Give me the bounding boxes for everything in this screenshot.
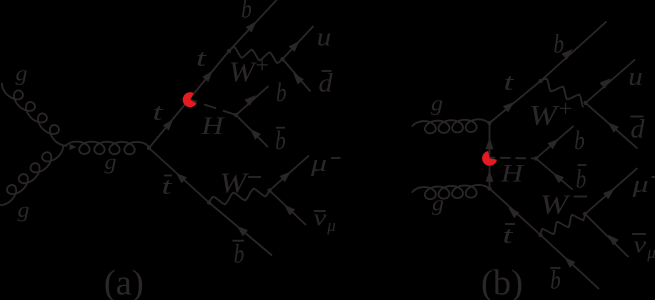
muon line mu- (a) (270, 156, 310, 191)
vertex H-b-bbar (b) (534, 156, 538, 160)
top quark line t (b) (490, 81, 541, 123)
incoming gluon g bottom (b) (412, 185, 490, 199)
svg-text:b: b (574, 126, 585, 155)
svg-text:H: H (500, 160, 526, 187)
vertex tbar-bbar-W- (a) (207, 200, 211, 204)
svg-text:μ: μ (631, 172, 648, 198)
svg-text:(a): (a) (104, 263, 144, 300)
bbar quark line from H (b) (536, 159, 573, 190)
svg-text:b: b (234, 240, 245, 269)
arrow b from H (b) (548, 139, 559, 150)
u quark line (a) (283, 26, 314, 59)
arrow b (b) (562, 49, 573, 60)
arrow b from H (a) (245, 95, 256, 106)
svg-text:+: + (255, 53, 269, 79)
vertex g-t (b) (487, 121, 491, 125)
vertex t-b-W+ (b) (538, 79, 542, 83)
arrow bbar from tbar (a) (237, 226, 248, 237)
svg-text:ν: ν (633, 233, 646, 259)
svg-text:ν: ν (313, 206, 326, 232)
antitop quark line tbar (a) (149, 148, 209, 203)
top quark line t (a) (149, 51, 229, 148)
svg-text:g: g (16, 61, 28, 86)
svg-text:b: b (276, 78, 287, 107)
svg-text:W: W (220, 169, 250, 200)
arrow mu- (a) (280, 172, 291, 183)
vertex tbar-bbar-W- (b) (538, 233, 542, 237)
W+ boson wavy line (a) (229, 47, 283, 63)
svg-text:b: b (554, 30, 565, 59)
W+ boson wavy line (b) (541, 79, 584, 108)
W- boson wavy line (b) (541, 214, 586, 235)
effective vertex blob (b) (482, 151, 497, 166)
svg-text:u: u (628, 62, 643, 91)
vertex H-b-bbar (a) (234, 113, 238, 117)
svg-text:μ: μ (310, 151, 327, 177)
b quark line from H (a) (236, 86, 269, 115)
arrow dbar (a) (293, 73, 304, 84)
arrow t vertical upper (b) (486, 138, 494, 149)
incoming gluon g lower-left (a) (0, 145, 63, 205)
arrow t vertical lower (b) (486, 170, 494, 182)
svg-text:b: b (241, 0, 252, 24)
arrow t upper segment (a) (202, 71, 212, 82)
arrow tbar (b) (508, 208, 519, 219)
arrow t (b) (503, 102, 514, 112)
arrow nubar (b) (608, 235, 619, 246)
svg-text:g: g (431, 91, 443, 116)
arrow b (a) (246, 21, 257, 32)
vertex W+-u-dbar (a) (280, 57, 284, 61)
antineutrino line nubar (b) (585, 214, 629, 257)
arrow u (b) (600, 78, 611, 89)
vertex W--mu-nubar (a) (267, 188, 271, 192)
svg-text:(b): (b) (481, 263, 523, 300)
arrow bbar from H (b) (553, 173, 564, 184)
svg-text:μ: μ (646, 243, 655, 262)
bbar quark line from tbar (a) (209, 203, 272, 256)
svg-text:W: W (529, 101, 560, 132)
arrow dbar (b) (608, 122, 619, 133)
vertex W--mu-nubar (b) (583, 212, 587, 216)
vertex W+-u-dbar (b) (583, 101, 587, 105)
b quark line from t (a) (229, 0, 278, 51)
svg-text:μ: μ (326, 216, 336, 235)
svg-text:b: b (550, 266, 561, 295)
H dashed propagator (b) (489, 158, 537, 159)
u quark line (b) (586, 60, 636, 104)
b quark line from H (b) (536, 126, 574, 159)
gluon propagator g (a) (65, 142, 149, 155)
incoming gluon g top (b) (412, 119, 490, 133)
antitop quark line tbar (b) (490, 189, 541, 236)
svg-text:g: g (432, 191, 444, 216)
W- boson wavy line (a) (209, 189, 270, 205)
svg-text:b: b (275, 126, 286, 155)
arrow mu- (b) (603, 189, 614, 200)
arrow nubar (a) (284, 205, 295, 216)
small arrow on gluon propagator (a) (70, 144, 77, 150)
svg-text:u: u (317, 23, 332, 52)
incoming gluon g upper-left (a) (2, 83, 67, 146)
effective vertex blob (a) (183, 92, 197, 107)
bbar quark line from tbar (b) (541, 235, 600, 289)
H dashed propagator (a) (190, 100, 237, 116)
dbar quark line (a) (283, 59, 311, 92)
svg-text:g: g (105, 149, 117, 174)
svg-text:g: g (18, 197, 30, 222)
svg-text:b: b (576, 165, 587, 194)
arrow tbar (a) (176, 173, 187, 184)
svg-text:d: d (319, 69, 334, 98)
arrow u (a) (289, 41, 300, 52)
vertex g-tbar (b) (487, 186, 491, 190)
svg-text:W: W (540, 190, 571, 220)
svg-text:H: H (200, 113, 226, 140)
vertex g-t-tbar (a) (147, 146, 151, 150)
arrow bbar from tbar (b) (564, 257, 575, 268)
svg-text:d: d (631, 115, 646, 144)
muon line mu- (b) (585, 168, 638, 214)
b quark line (b) (541, 22, 607, 82)
arrow t lower segment (a) (163, 119, 173, 130)
arrow bbar from H (a) (250, 129, 261, 140)
antineutrino line nubar (a) (270, 191, 307, 226)
svg-text:W: W (229, 58, 258, 89)
vertex t-b-W+ (a) (227, 49, 231, 53)
bbar quark line from H (a) (236, 115, 268, 147)
svg-text:+: + (559, 97, 573, 123)
dbar quark line (b) (586, 103, 638, 149)
top quark vertical propagator (b) (489, 123, 491, 189)
